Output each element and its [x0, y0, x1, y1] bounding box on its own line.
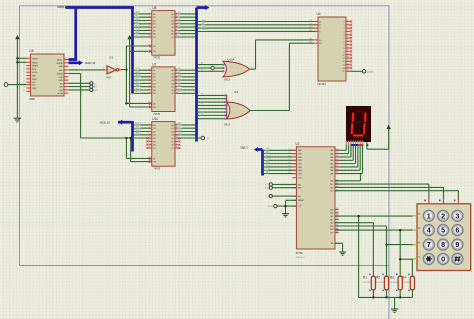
- svg-text:31: 31: [336, 231, 338, 233]
- svg-text:35: 35: [336, 218, 338, 220]
- svg-text:25: 25: [336, 152, 338, 154]
- svg-text:13: 13: [289, 152, 291, 154]
- svg-text:8: 8: [149, 140, 150, 142]
- svg-text:6: 6: [149, 79, 150, 81]
- svg-text:20: 20: [23, 68, 25, 70]
- svg-text:1: 1: [347, 23, 348, 25]
- svg-text:8: 8: [347, 47, 348, 49]
- svg-text:PULLDOWN: PULLDOWN: [402, 282, 411, 284]
- svg-text:25: 25: [23, 83, 25, 85]
- svg-text:8: 8: [441, 240, 445, 249]
- svg-text:R1: R1: [363, 275, 367, 279]
- svg-text:IO/M: IO/M: [59, 90, 63, 92]
- svg-text:OR_8: OR_8: [224, 124, 231, 127]
- svg-text:6: 6: [455, 226, 459, 235]
- svg-text:74373: 74373: [153, 167, 160, 171]
- svg-text:U9: U9: [109, 55, 113, 59]
- svg-text:VCC: VCC: [32, 85, 37, 87]
- svg-text:R4: R4: [402, 275, 406, 279]
- svg-text:10: 10: [149, 36, 151, 38]
- svg-text:PULLDOWN: PULLDOWN: [363, 282, 372, 284]
- svg-text:22: 22: [310, 23, 312, 25]
- svg-text:14: 14: [347, 67, 349, 69]
- svg-text:RESET: RESET: [32, 58, 39, 60]
- svg-text:3: 3: [149, 12, 150, 14]
- svg-text:PULLDOWN: PULLDOWN: [390, 282, 399, 284]
- svg-text:8086: 8086: [30, 97, 36, 101]
- svg-text:62810B: 62810B: [267, 206, 274, 208]
- svg-text:38: 38: [336, 208, 338, 210]
- svg-text:U7: U7: [152, 62, 156, 66]
- svg-text:7: 7: [149, 137, 150, 139]
- svg-text:5: 5: [149, 19, 150, 21]
- svg-text:9: 9: [176, 92, 177, 94]
- svg-text:10: 10: [149, 92, 151, 94]
- svg-text:DEN: DEN: [59, 80, 64, 82]
- svg-text:20: 20: [310, 30, 312, 32]
- svg-text:ADD[0..19]: ADD[0..19]: [85, 62, 96, 65]
- svg-text:74C154: 74C154: [317, 82, 326, 86]
- svg-text:3: 3: [251, 67, 252, 69]
- svg-text:3: 3: [347, 30, 348, 32]
- svg-text:9: 9: [149, 89, 150, 91]
- svg-text:11: 11: [347, 57, 349, 59]
- svg-text:9: 9: [455, 240, 459, 249]
- svg-text:23: 23: [23, 77, 25, 79]
- svg-text:74373: 74373: [153, 56, 160, 60]
- svg-text:DEN: DEN: [94, 90, 99, 92]
- svg-text:26: 26: [23, 87, 25, 89]
- svg-text:37: 37: [336, 211, 338, 213]
- svg-text:8279A: 8279A: [296, 251, 303, 255]
- svg-text:7: 7: [347, 43, 348, 45]
- svg-text:6: 6: [149, 22, 150, 24]
- svg-text:3: 3: [455, 211, 459, 220]
- svg-text:AD19: AD19: [135, 132, 141, 135]
- svg-text:U4: U4: [317, 12, 321, 16]
- svg-text:R3: R3: [390, 275, 394, 279]
- svg-text:26: 26: [336, 156, 338, 158]
- svg-text:7: 7: [149, 26, 150, 28]
- svg-text:OR_3: OR_3: [224, 78, 231, 81]
- svg-text:READY: READY: [32, 61, 39, 64]
- svg-text:5: 5: [176, 133, 177, 135]
- svg-text:9: 9: [149, 143, 150, 145]
- svg-text:18: 18: [289, 169, 291, 171]
- svg-text:AD15..: AD15..: [57, 59, 63, 62]
- svg-text:9: 9: [176, 147, 177, 149]
- svg-text:10: 10: [347, 53, 349, 55]
- svg-text:28: 28: [336, 162, 338, 164]
- svg-text:2: 2: [119, 68, 120, 70]
- svg-text:3: 3: [149, 69, 150, 71]
- svg-text:MN/MX: MN/MX: [32, 66, 39, 68]
- svg-text:12: 12: [347, 60, 349, 62]
- svg-text:7: 7: [427, 240, 431, 249]
- svg-text:6: 6: [347, 40, 348, 42]
- svg-text:0: 0: [347, 20, 348, 22]
- svg-text:GND: GND: [32, 88, 37, 90]
- svg-text:4: 4: [149, 16, 150, 18]
- svg-text:2: 2: [441, 211, 445, 220]
- svg-text:7: 7: [149, 82, 150, 84]
- svg-text:OE: OE: [206, 138, 210, 140]
- svg-text:17: 17: [289, 166, 291, 168]
- svg-text:9: 9: [300, 199, 301, 201]
- svg-text:U2:A: U2:A: [228, 58, 236, 62]
- svg-text:21: 21: [310, 27, 312, 29]
- svg-text:18: 18: [23, 61, 25, 63]
- svg-text:31: 31: [336, 172, 338, 174]
- svg-text:24: 24: [336, 149, 338, 151]
- svg-text:27: 27: [23, 90, 25, 92]
- svg-text:R2: R2: [376, 275, 380, 279]
- svg-text:HOLD: HOLD: [32, 72, 38, 74]
- svg-text:14: 14: [289, 156, 291, 158]
- svg-text:7: 7: [176, 140, 177, 142]
- svg-text:6: 6: [176, 137, 177, 139]
- svg-text:74373: 74373: [153, 112, 160, 116]
- svg-text:8: 8: [149, 29, 150, 31]
- svg-text:PULLDOWN: PULLDOWN: [376, 282, 385, 284]
- svg-text:18: 18: [310, 38, 312, 40]
- svg-text:DT/R: DT/R: [58, 77, 63, 79]
- svg-text:9: 9: [176, 36, 177, 38]
- svg-text:A1: A1: [266, 195, 268, 198]
- svg-text:29: 29: [336, 166, 338, 168]
- svg-text:21: 21: [23, 71, 25, 73]
- svg-text:16: 16: [289, 162, 291, 164]
- svg-text:19: 19: [310, 42, 312, 44]
- svg-text:5: 5: [441, 226, 445, 235]
- svg-text:U5: U5: [30, 49, 34, 53]
- svg-text:AD15: AD15: [135, 91, 141, 94]
- svg-text:0: 0: [441, 254, 445, 263]
- svg-text:22: 22: [23, 74, 25, 76]
- svg-text:23: 23: [310, 20, 312, 22]
- svg-text:15: 15: [289, 159, 291, 161]
- svg-text:13: 13: [347, 63, 349, 65]
- svg-text:U1: U1: [296, 142, 300, 146]
- svg-text:IOW: IOW: [265, 188, 269, 190]
- svg-text:4: 4: [347, 33, 348, 35]
- svg-text:NOT: NOT: [107, 77, 112, 80]
- svg-text:A19/S6: A19/S6: [57, 62, 64, 65]
- svg-text:22: 22: [300, 204, 302, 206]
- svg-text:6: 6: [149, 133, 150, 135]
- svg-text:TRACE=T: TRACE=T: [296, 256, 306, 259]
- svg-text:INTR: INTR: [32, 69, 37, 71]
- svg-text:8: 8: [176, 143, 177, 145]
- svg-text:4: 4: [149, 127, 150, 129]
- svg-text:1: 1: [427, 211, 431, 220]
- svg-text:62810B: 62810B: [367, 71, 374, 73]
- svg-text:3: 3: [149, 123, 150, 125]
- svg-text:DB[0..7]: DB[0..7]: [241, 147, 249, 149]
- svg-text:19: 19: [23, 64, 25, 66]
- svg-text:19: 19: [289, 172, 291, 174]
- svg-text:9: 9: [149, 32, 150, 34]
- svg-text:8: 8: [149, 85, 150, 87]
- svg-text:4: 4: [149, 72, 150, 74]
- svg-text:5: 5: [347, 37, 348, 39]
- svg-text:NMI: NMI: [32, 76, 36, 78]
- svg-text:U10: U10: [152, 117, 158, 121]
- svg-text:10: 10: [149, 147, 151, 149]
- svg-text:4: 4: [427, 226, 431, 235]
- svg-text:15: 15: [347, 70, 349, 72]
- svg-text:ADD[0..19]: ADD[0..19]: [100, 121, 111, 124]
- svg-text:5: 5: [149, 130, 150, 132]
- svg-text:30: 30: [336, 169, 338, 171]
- svg-text:U8: U8: [152, 6, 156, 10]
- svg-text:2: 2: [347, 27, 348, 29]
- svg-text:1: 1: [103, 68, 104, 70]
- svg-text:17: 17: [23, 57, 25, 59]
- svg-text:AD7: AD7: [135, 34, 140, 37]
- svg-text:HLDA: HLDA: [58, 92, 64, 95]
- svg-text:U3: U3: [234, 90, 238, 94]
- svg-text:A16/S3: A16/S3: [57, 73, 64, 76]
- svg-text:9: 9: [347, 50, 348, 52]
- svg-text:5: 5: [149, 75, 150, 77]
- svg-text:27: 27: [336, 159, 338, 161]
- svg-text:12: 12: [289, 149, 291, 151]
